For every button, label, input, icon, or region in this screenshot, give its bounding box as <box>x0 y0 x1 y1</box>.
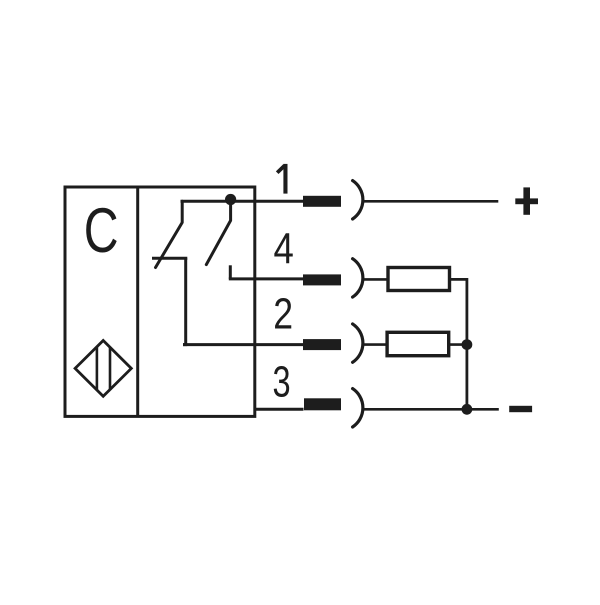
wire: resistor 2 to right rail <box>450 343 467 346</box>
connector arc pin 4 <box>353 259 363 297</box>
wire: pin 4 arc to load resistor <box>363 278 388 281</box>
wire: common top line to pin 1 <box>181 200 304 203</box>
pin 4 terminal bar <box>303 274 341 285</box>
plus terminal <box>515 187 538 214</box>
wire: pin 2 line inside box <box>183 343 304 346</box>
pin 4 contact terminal <box>229 265 232 279</box>
load resistor on pin 2 <box>387 332 449 355</box>
wire: pin 4 line <box>229 277 304 280</box>
wire: pin 2 arc to load resistor <box>363 343 388 346</box>
pin 2 terminal bar <box>303 339 341 350</box>
pin number 1 <box>277 164 287 194</box>
wire: pin 3 to minus terminal <box>363 408 499 411</box>
connector arc pin 1 <box>353 181 363 219</box>
wire: resistor 4 to right rail, down <box>451 279 467 409</box>
sensor body box <box>65 187 255 416</box>
proximity sensor diamond symbol <box>75 341 131 397</box>
svg-text:C: C <box>84 195 119 266</box>
junction dot on common line <box>225 194 236 205</box>
NC contact (left switch) <box>152 201 187 267</box>
wire: pin 3 line from box <box>254 408 304 411</box>
minus terminal <box>509 406 532 412</box>
junction dot rail/pin2 <box>462 339 473 350</box>
wire: pin 1 to plus terminal <box>363 200 498 203</box>
svg-text:2: 2 <box>273 290 293 338</box>
svg-text:4: 4 <box>274 223 294 273</box>
connector arc pin 3 <box>353 389 363 427</box>
pin 3 terminal bar <box>304 398 341 410</box>
connector arc pin 2 <box>353 324 363 362</box>
svg-text:3: 3 <box>272 358 290 407</box>
wire: NC terminal down to pin 2 line <box>183 258 186 344</box>
NO contact (right switch) <box>206 200 230 265</box>
load resistor on pin 4 <box>388 268 450 291</box>
junction dot rail/pin3 <box>462 404 473 415</box>
pin 1 terminal bar <box>303 196 341 207</box>
